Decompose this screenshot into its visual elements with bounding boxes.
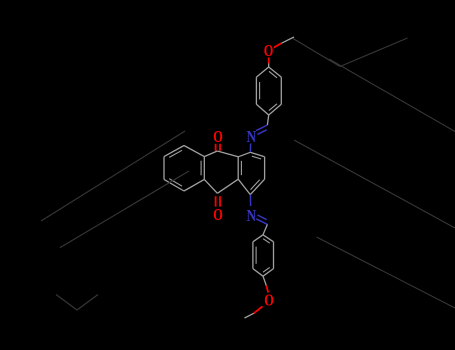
imine C=N bottom double bond [256, 219, 267, 225]
methyl bond bottom (O-CH3) [254, 306, 263, 313]
carbonyl C=O top (C9) [215, 144, 217, 151]
svg-text:O: O [213, 205, 223, 224]
svg-text:N: N [247, 206, 257, 225]
bottom methoxyphenyl ring [253, 269, 263, 277]
bond ring to O ether bottom [266, 286, 268, 293]
watermark line left upper [41, 131, 185, 221]
watermark line left lower [60, 171, 189, 248]
watermark diagonal middle-right [294, 140, 455, 228]
svg-text:O: O [213, 127, 223, 146]
watermark V top-right right stroke [340, 38, 408, 67]
watermark diagonal right [329, 59, 455, 132]
bond ring to O ether top [268, 58, 270, 64]
carbonyl C=O bottom (C10) [215, 196, 217, 206]
imine C=N top double bond [256, 125, 267, 131]
bond N1 to ring [249, 144, 251, 153]
anthraquinone middle quinone ring [217, 151, 238, 157]
anthraquinone left benzo ring [184, 146, 204, 157]
watermark diagonal bottom-right [317, 237, 455, 308]
svg-text:N: N [247, 127, 257, 146]
watermark V top-right left stroke [293, 39, 340, 67]
methyl bond top (O-CH3) [274, 43, 282, 47]
watermark zigzag bottom-left [56, 295, 77, 311]
svg-text:O: O [264, 41, 274, 60]
benzylidene CH top [267, 115, 268, 125]
svg-text:O: O [264, 290, 274, 309]
top methoxyphenyl ring [256, 67, 268, 77]
benzylidene CH bottom [263, 224, 267, 234]
anthraquinone right ring with imino substituents [250, 152, 264, 157]
bond N4 to ring [249, 195, 251, 206]
